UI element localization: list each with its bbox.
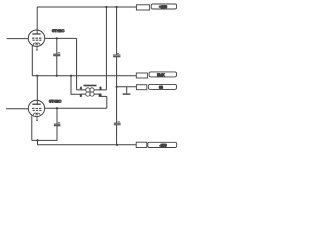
wire V2 grid line right	[45, 107, 107, 109]
capacitor C3 plates	[114, 123, 121, 125]
capacitor C2 plates	[53, 54, 60, 56]
svg-text:ВЫХ: ВЫХ	[157, 73, 165, 77]
wire drop to bottom rail	[37, 140, 39, 144]
wire V1 heater stub	[36, 46, 38, 50]
svg-text:+250: +250	[159, 5, 167, 9]
capacitor C2 polarity mark	[58, 52, 60, 54]
wire +250 drop to winding W1 right	[105, 7, 107, 90]
wire W2 leads	[81, 94, 107, 96]
node junction grid line / C2 branch	[56, 37, 58, 39]
wire W1 leads	[77, 89, 107, 91]
port +250 label box	[151, 4, 176, 9]
svg-text:6ТН2С: 6ТН2С	[52, 28, 65, 33]
wire filter column lower segment	[116, 87, 118, 123]
wire V2 heater stub	[36, 117, 38, 121]
port -250 pin box	[136, 142, 147, 147]
inductor winding W2 loop a	[86, 92, 90, 96]
triode V1 anode	[32, 33, 40, 35]
capacitor C4 lower wire to cathode	[32, 126, 57, 140]
wire riser to winding W1 left	[76, 38, 78, 90]
wire filter column bottom segment	[116, 125, 118, 145]
capacitor C3 polarity mark	[118, 121, 120, 123]
triode V1 cathode	[33, 39, 42, 41]
svg-text:-250: -250	[159, 144, 166, 148]
wire V2 grid lead left	[6, 108, 28, 110]
node junction bottom rail x117	[116, 144, 118, 146]
triode V2 envelope	[28, 100, 44, 116]
port VYH label box	[149, 72, 176, 77]
capacitor C2 lower wire	[56, 56, 58, 76]
triode V2 cathode	[33, 109, 42, 111]
wire V2 cathode lead down	[31, 116, 33, 141]
port -250 label box	[148, 142, 177, 147]
capacitor C4 plates	[54, 124, 61, 126]
inductor winding W1 loop a	[86, 88, 90, 92]
capacitor C2 upper branch wire	[56, 38, 58, 54]
capacitor C4 polarity mark	[58, 122, 60, 124]
triode V1 heater	[33, 43, 40, 45]
wire V1 right lead	[45, 37, 77, 39]
port 0V pin box	[136, 85, 146, 90]
triode V2 grid	[32, 107, 41, 109]
node junction top rail x106.4	[105, 6, 107, 8]
wire filter column middle segment	[116, 57, 118, 87]
node junction W2 link on node line	[70, 75, 72, 77]
triode V1 grid	[32, 37, 41, 39]
inductor winding W1 loop b	[90, 88, 94, 92]
wire V1 grid lead left	[7, 38, 29, 40]
inductor winding W2 loop b	[90, 92, 94, 96]
svg-text:6ТН2С: 6ТН2С	[49, 99, 62, 104]
node junction 0V line	[116, 86, 118, 88]
triode V2 heater	[33, 113, 40, 115]
port +250 pin box	[136, 5, 149, 10]
node junction C2 branch on node line	[56, 75, 58, 77]
wire node line (V1 cathode / V2 anode / output)	[32, 75, 136, 77]
node junction V2 grid line / C4 branch	[56, 107, 58, 109]
capacitor C1 polarity mark	[117, 53, 119, 55]
port 0V label box	[148, 84, 176, 89]
wire V1 cathode lead down	[31, 45, 33, 75]
triode V2 anode	[32, 103, 40, 105]
svg-text:2: 2	[100, 86, 102, 90]
capacitor C1 plates	[113, 55, 120, 57]
wire bottom rail	[38, 144, 137, 146]
ground symbol	[123, 87, 131, 94]
wire 0V line to port	[117, 86, 137, 88]
inductor core bar	[84, 85, 97, 87]
wire V2 anode lead up	[36, 76, 38, 105]
port VYH pin box	[136, 73, 147, 78]
wire W2 right drop to V2 grid line	[106, 96, 108, 108]
triode V1 envelope	[28, 30, 44, 46]
wire filter column upper segment	[116, 7, 118, 55]
node junction bottom branch	[36, 139, 38, 141]
capacitor C4 upper wire	[56, 108, 58, 124]
node junction top rail x116.6	[116, 6, 118, 8]
node junction V2 anode on node line	[36, 75, 38, 77]
wire W2 left link to cathode node	[71, 76, 81, 95]
wire top rail +250	[37, 6, 136, 8]
